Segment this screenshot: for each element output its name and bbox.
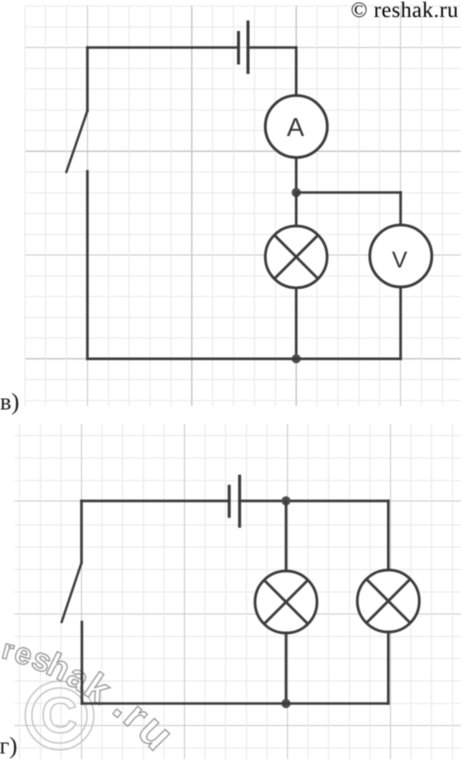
lamp EL2 (circle with cross) [255,571,317,633]
wire: left vertical above switch S1 [86,48,89,111]
watermark copyright symbol [25,681,94,750]
node 4 junction dot [281,699,290,708]
switch S2 open blade [62,563,82,622]
wire: battery GB1 to top-right corner [248,46,296,49]
switch S1 open blade [66,111,87,172]
site credit text (c) reshak.ru [352,2,458,18]
ammeter A [265,96,327,158]
wire: down to ammeter [295,48,298,95]
lamp EL1 (circle with cross) [265,226,327,288]
wire: top-left horizontal to battery GB2 (circuit g) [82,500,230,503]
voltmeter V [370,225,432,287]
wire: ammeter to node 1 [295,158,298,192]
wire: right vertical down to lamp EL3 [387,501,390,570]
wire: left vertical below switch S1 [86,171,89,358]
battery GB1 long plate (positive terminal) [247,21,250,75]
watermark text reshak.ru [2,643,169,750]
wire: down to voltmeter [399,193,402,226]
wire: lamp EL1 to node 2 [295,288,298,359]
battery GB1 short plate (negative terminal) [237,31,240,65]
node 1 junction dot [292,188,301,197]
wire: lamp EL2 to node 4 [285,633,288,704]
wire: node 1 down to lamp EL1 [295,193,298,227]
wire: node 3 down to lamp EL2 [285,501,288,571]
wire: bottom horizontal (circuit g) [82,702,388,705]
node 2 junction dot [292,354,301,363]
wire: node 1 right to voltmeter branch [296,191,400,194]
wire: bottom horizontal (circuit v) [87,357,400,360]
wire: top-left horizontal to battery GB1 (circuit v) [87,46,238,49]
wire: left vertical below switch S2 [81,622,84,704]
label g) for circuit 2 [0,737,16,759]
wire: voltmeter to bottom wire [399,287,402,359]
lamp EL3 (circle with cross) [357,570,419,632]
node 3 junction dot [281,496,290,505]
label v) for circuit 1 [0,393,18,415]
wire: battery GB2 to top-right corner (circuit g) [240,500,389,503]
wire: lamp EL3 to bottom wire [387,632,390,704]
battery GB2 long plate (positive terminal) [238,475,241,528]
battery GB2 short plate (negative terminal) [228,485,231,518]
wire: left vertical above switch S2 [80,501,83,563]
